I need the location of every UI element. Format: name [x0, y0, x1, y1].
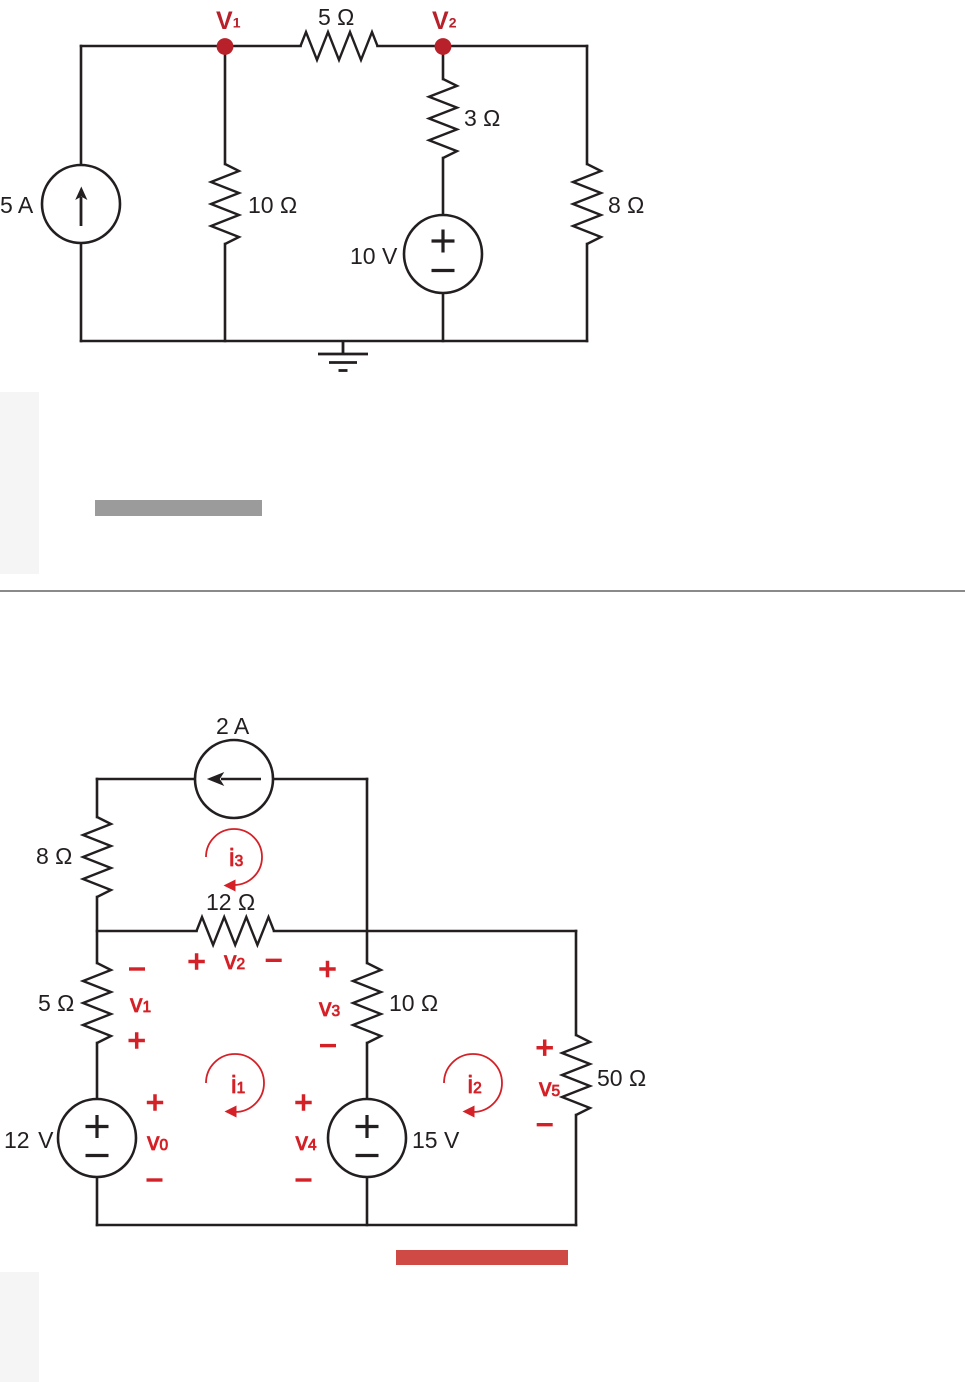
svg-text:10 Ω: 10 Ω — [389, 990, 438, 1016]
svg-text:50 Ω: 50 Ω — [597, 1065, 646, 1091]
svg-text:8 Ω: 8 Ω — [608, 192, 644, 218]
svg-text:10 Ω: 10 Ω — [248, 192, 297, 218]
svg-text:3 Ω: 3 Ω — [464, 105, 500, 131]
svg-text:5 Ω: 5 Ω — [318, 4, 354, 30]
svg-text:12V: 12V — [4, 1127, 54, 1153]
svg-text:5 Ω: 5 Ω — [38, 990, 74, 1016]
svg-text:12 Ω: 12 Ω — [206, 889, 255, 915]
svg-text:2 A: 2 A — [216, 713, 250, 739]
svg-text:15 V: 15 V — [412, 1127, 460, 1153]
svg-text:10 V: 10 V — [350, 243, 398, 269]
svg-text:8 Ω: 8 Ω — [36, 843, 72, 869]
svg-text:5 A: 5 A — [0, 192, 34, 218]
